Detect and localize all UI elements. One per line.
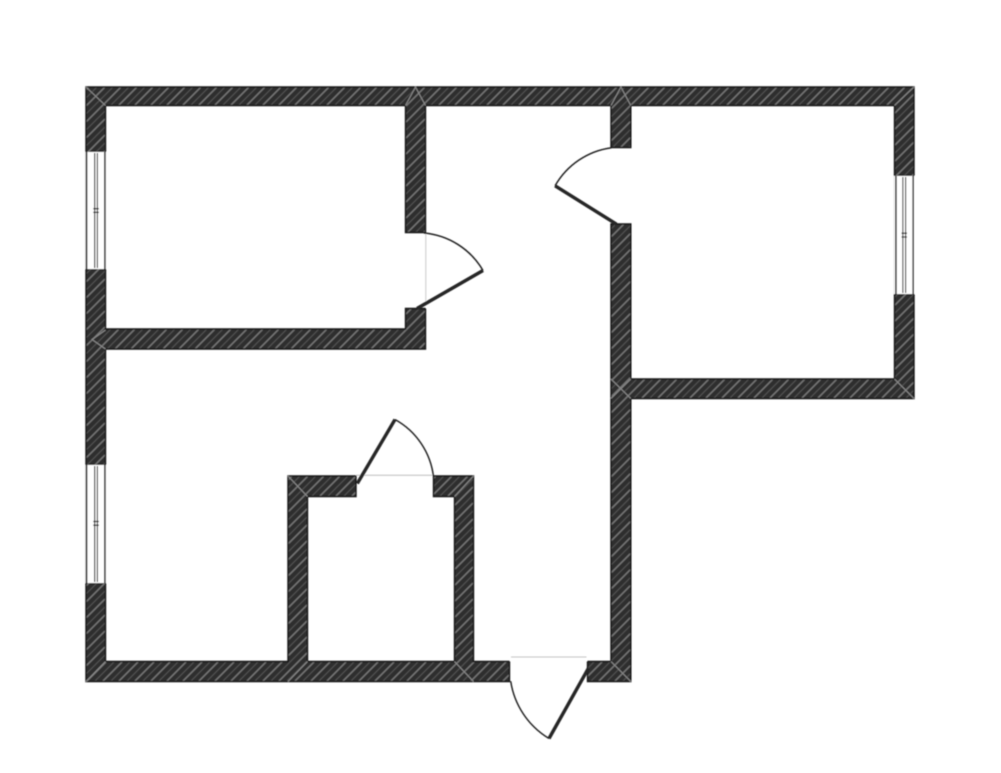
- wall: room1 bottom: [86, 329, 426, 349]
- window W2 left wall lower: [85, 465, 106, 583]
- mitre: closet left / bottom wall joint: [288, 662, 308, 682]
- mitre: top wall / room1 wall tee: [406, 87, 426, 106]
- mitre: bottom-left corner: [86, 662, 106, 682]
- mitre joint lines: [86, 87, 914, 682]
- mitre: left wall / room1 bottom wall tee: [92, 330, 106, 349]
- wall: middle vertical lower run: [611, 224, 631, 662]
- mitre: bottom wall / middle wall corner: [611, 662, 631, 682]
- wall: closet left: [288, 476, 308, 662]
- wall contour outlines: [86, 87, 914, 682]
- door D4 entrance arc: [511, 681, 549, 738]
- mitre: top wall / middle wall tee: [611, 87, 631, 106]
- door D4 entrance frame line: [511, 656, 587, 658]
- wall: closet top right segment: [434, 476, 474, 497]
- mitre: middle wall / room bottom wall joint: [611, 379, 631, 399]
- door D2 middle wall arc: [555, 148, 611, 186]
- wall: outer left: [86, 87, 106, 682]
- wall: outer bottom right segment: [588, 662, 631, 682]
- wall: middle vertical upper stub: [611, 105, 631, 148]
- door D3 closet leaf: [357, 420, 395, 484]
- window W3 right wall: [894, 176, 915, 294]
- door D1 room1 leaf: [417, 271, 483, 309]
- door D3 closet arc: [395, 420, 434, 477]
- wall: closet right: [455, 476, 474, 662]
- mitre: closet top-left corner: [288, 476, 308, 497]
- mitre: closet right / bottom wall joint: [455, 662, 474, 682]
- wall: closet top left segment: [288, 476, 356, 497]
- mitre: closet top-right corner: [455, 476, 474, 497]
- door D4 entrance leaf: [549, 669, 588, 739]
- door D1 room1 frame line: [425, 233, 427, 303]
- wall: outer bottom left segment: [86, 662, 510, 682]
- mitre: top-right corner: [895, 87, 915, 106]
- wall: outer right: [895, 87, 915, 399]
- mitre: top-left corner: [86, 87, 106, 106]
- wall: room1 right upper segment: [406, 105, 426, 233]
- door D3 closet frame line: [356, 474, 434, 476]
- door D1 room1 arc: [424, 233, 483, 271]
- wall: right room bottom: [611, 379, 914, 399]
- wall: outer top: [86, 87, 914, 106]
- window W1 left wall upper: [85, 152, 106, 269]
- mitre: right wall / room bottom wall corner: [895, 379, 915, 399]
- door D2 middle wall leaf: [555, 186, 616, 224]
- wall: room1 right lower stub: [406, 309, 426, 350]
